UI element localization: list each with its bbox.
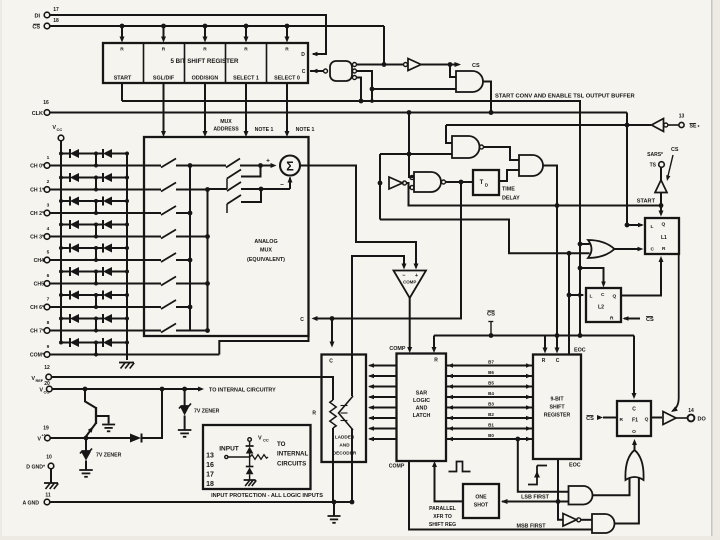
svg-text:4: 4 [47, 226, 50, 232]
wire start-cell to OR G8 [122, 101, 580, 336]
svg-text:LSB FIRST: LSB FIRST [521, 495, 550, 501]
svg-text:START CONV AND ENABLE TSL OUTP: START CONV AND ENABLE TSL OUTPUT BUFFER [495, 94, 635, 100]
svg-text:18: 18 [53, 18, 59, 24]
svg-text:NOTE 1: NOTE 1 [296, 127, 315, 133]
svg-text:9-BIT: 9-BIT [551, 397, 565, 403]
svg-text:17: 17 [53, 7, 59, 13]
svg-text:DELAY: DELAY [502, 196, 520, 202]
svg-text:SHIFT: SHIFT [550, 405, 566, 411]
buffer G2 internal CS [404, 63, 408, 67]
svg-text:DO: DO [698, 417, 707, 423]
svg-text:O: O [632, 429, 636, 435]
svg-text:R: R [434, 358, 438, 364]
wire CLK line [50, 112, 627, 114]
svg-text:20: 20 [44, 381, 50, 387]
and gate G3 start conv [456, 71, 483, 92]
svg-text:MUX: MUX [260, 248, 272, 254]
wire internal reset-clock line with CS node [434, 335, 634, 337]
svg-text:19: 19 [43, 426, 49, 432]
one shot U8 [463, 484, 499, 518]
svg-text:EOC: EOC [569, 463, 581, 469]
and gate G11 LSB first [569, 486, 593, 505]
svg-text:ODD/SIGN: ODD/SIGN [192, 76, 219, 82]
wire clk to latch L1 [626, 113, 628, 226]
svg-text:D GND*: D GND* [26, 465, 46, 471]
wires G1 inputs [357, 64, 385, 66]
wire START cell output [121, 83, 123, 101]
svg-text:COMP: COMP [389, 346, 406, 352]
svg-text:D: D [301, 52, 305, 58]
svg-text:9: 9 [47, 344, 50, 350]
pulse waveform symbol [449, 462, 471, 472]
svg-text:C: C [556, 358, 560, 364]
svg-text:L: L [590, 294, 593, 300]
svg-text:Σ: Σ [286, 160, 294, 174]
svg-text:SE: SE [690, 124, 697, 130]
buffer G9 DO output pin 14 [663, 412, 676, 425]
svg-text:13: 13 [679, 114, 685, 120]
nand gate G6 [414, 172, 441, 192]
svg-text:AND: AND [339, 443, 350, 448]
svg-text:SAR: SAR [416, 391, 427, 397]
svg-text:7: 7 [47, 297, 50, 303]
svg-text:R: R [620, 417, 624, 423]
svg-text:CS: CS [671, 147, 679, 153]
svg-text:R: R [244, 47, 248, 53]
nand gate G4 [452, 136, 480, 158]
5-bit shift register U1 [103, 43, 308, 83]
svg-text:ANALOG: ANALOG [254, 239, 277, 245]
svg-text:CLK: CLK [32, 111, 43, 117]
svg-text:INTERNAL: INTERNAL [277, 451, 308, 458]
svg-text:R: R [662, 246, 666, 252]
ground symbol rail [119, 362, 134, 364]
wire G6 output to mux C input [315, 182, 461, 319]
svg-text:TS: TS [650, 163, 657, 169]
svg-text:CC: CC [57, 127, 63, 132]
svg-text:DECODER: DECODER [333, 451, 357, 456]
rising edge symbol [528, 466, 537, 485]
bus B7-B0 between SAR and shift register [446, 365, 533, 367]
svg-text:F1: F1 [632, 418, 638, 424]
svg-text:A GND: A GND [22, 501, 39, 507]
svg-text:C: C [302, 69, 306, 75]
svg-text:REGISTER: REGISTER [544, 413, 571, 419]
wire parallel transfer to SAR [435, 464, 464, 502]
summing node sigma [280, 156, 300, 176]
svg-text:CH 0*: CH 0* [30, 164, 45, 170]
svg-text:5: 5 [47, 250, 50, 256]
svg-text:R: R [312, 411, 316, 417]
svg-text:C: C [632, 407, 636, 413]
svg-text:CH4: CH4 [34, 258, 44, 264]
svg-text:MUX: MUX [220, 119, 232, 125]
svg-text:+: + [266, 158, 270, 165]
svg-text:SELECT 0: SELECT 0 [274, 76, 300, 82]
wire mux C control [315, 318, 461, 320]
svg-text:B0: B0 [488, 433, 494, 438]
flip-flop F1 [617, 401, 651, 436]
wire L1 output to DO tri-state control [673, 254, 679, 411]
svg-text:R: R [542, 358, 546, 364]
comparator U4 [394, 271, 427, 299]
or gate G10 [625, 450, 643, 480]
svg-text:REF: REF [36, 379, 44, 383]
svg-text:COM*: COM* [30, 353, 45, 359]
svg-text:8: 8 [47, 320, 50, 326]
svg-text:LOGIC: LOGIC [413, 398, 430, 404]
svg-text:7V ZENER: 7V ZENER [96, 453, 122, 459]
svg-text:L2: L2 [598, 305, 604, 311]
svg-text:LATCH: LATCH [413, 413, 431, 419]
svg-text:B7: B7 [488, 360, 494, 365]
wire CS drop to gate G1 [383, 26, 385, 65]
svg-text:R: R [162, 47, 166, 53]
svg-text:Q: Q [613, 294, 617, 300]
input protection diode array CH0-COM [61, 153, 70, 155]
svg-text:SHOT: SHOT [474, 503, 489, 509]
svg-text:TIME: TIME [502, 187, 515, 193]
transistor Q1 [85, 389, 96, 408]
latch L2 [586, 288, 621, 322]
svg-text:L: L [651, 224, 654, 230]
and gate G5 [519, 155, 543, 176]
svg-text:V: V [258, 436, 262, 442]
svg-text:ADDRESS: ADDRESS [213, 127, 239, 133]
svg-text:C: C [651, 247, 655, 253]
svg-text:16: 16 [43, 100, 49, 106]
wire shift register serial out [558, 459, 563, 520]
svg-text:(EQUIVALENT): (EQUIVALENT) [247, 257, 285, 263]
wire G5 output start signal [543, 166, 557, 336]
svg-text:B6: B6 [488, 370, 494, 375]
zener Z1 7V with ground [85, 438, 87, 451]
svg-text:11: 11 [45, 493, 51, 499]
svg-text:B4: B4 [488, 391, 494, 396]
svg-text:B3: B3 [488, 402, 494, 407]
input protection detail box [203, 425, 311, 489]
wire G4 lower input [380, 153, 452, 155]
ladder and decoder U5 [322, 355, 367, 463]
svg-text:TO INTERNAL CIRCUITRY: TO INTERNAL CIRCUITRY [209, 388, 276, 394]
inverter G7 [389, 177, 403, 189]
SAR logic and latch U6 [397, 354, 447, 462]
svg-text:B5: B5 [488, 381, 494, 386]
svg-text:TO: TO [277, 441, 286, 448]
wire MSB first from SAR [409, 461, 592, 530]
wire sigma output to comparator plus [300, 166, 416, 268]
time delay U2 [473, 170, 499, 195]
wire G8 lower input [380, 220, 590, 254]
svg-text:18: 18 [206, 481, 214, 488]
svg-text:−: − [402, 273, 405, 279]
diode D19 on V+ line [130, 434, 141, 443]
svg-text:INPUT PROTECTION - ALL LOGIC: INPUT PROTECTION - ALL LOGIC INPUTS [211, 493, 323, 499]
svg-text:−: − [280, 182, 284, 189]
svg-text:CH 7*: CH 7* [30, 329, 45, 335]
ground Q1 base [102, 424, 115, 426]
wire ground rail [126, 154, 128, 361]
wire one-shot trigger [502, 501, 569, 503]
svg-text:COMP: COMP [389, 464, 405, 470]
svg-text:DI: DI [35, 14, 41, 20]
svg-text:START: START [637, 199, 656, 205]
svg-text:14: 14 [688, 408, 694, 414]
svg-text:SARS*: SARS* [647, 152, 663, 158]
svg-text:7V ZENER: 7V ZENER [194, 409, 220, 415]
svg-text:INPUT: INPUT [219, 446, 239, 453]
and gate G13 MSB first [592, 514, 615, 533]
svg-text:C: C [601, 292, 605, 298]
svg-text:12: 12 [44, 365, 50, 371]
svg-text:CH 6*: CH 6* [30, 305, 45, 311]
svg-text:CH 3*: CH 3* [30, 235, 45, 241]
svg-text:EOC: EOC [574, 348, 586, 354]
svg-text:START: START [114, 76, 132, 82]
svg-text:CH5: CH5 [34, 282, 44, 288]
svg-text:ONE: ONE [475, 495, 487, 501]
svg-text:CIRCUITS: CIRCUITS [277, 461, 306, 468]
svg-text:CS: CS [646, 317, 654, 323]
svg-text:Q: Q [662, 222, 666, 228]
svg-text:CS: CS [586, 416, 594, 422]
wire DI to shift register D input [50, 15, 326, 54]
tri-state buffer G15 SARS TS output [660, 193, 662, 206]
svg-text:CC: CC [263, 438, 269, 443]
svg-text:Q: Q [645, 417, 649, 423]
svg-text:1: 1 [47, 155, 50, 161]
svg-text:R: R [610, 316, 614, 322]
svg-text:6: 6 [47, 273, 50, 279]
svg-text:*: * [698, 125, 700, 131]
wire COM return [219, 336, 308, 355]
wire ladder output to comparator minus [352, 256, 404, 396]
svg-text:16: 16 [206, 462, 214, 469]
svg-text:CS: CS [472, 63, 480, 69]
svg-text:CH 2*: CH 2* [30, 211, 45, 217]
wire CS reset line with arrows into register cells [50, 25, 384, 27]
svg-text:R: R [120, 47, 124, 53]
svg-text:COMP: COMP [403, 280, 416, 285]
or gate G8 [588, 240, 615, 258]
wires mux address lines [163, 83, 165, 135]
nand gate G1 mirrored with input bubbles [330, 61, 352, 81]
svg-text:XFR TO: XFR TO [433, 514, 452, 520]
wire comparator output COMP to SAR [409, 298, 411, 351]
zener Z2 7V with ground [184, 389, 186, 406]
wire START line [409, 188, 662, 206]
svg-text:5 BIT SHIFT REGISTER: 5 BIT SHIFT REGISTER [170, 58, 239, 65]
svg-text:SELECT 1: SELECT 1 [233, 76, 259, 82]
svg-text:NOTE 1: NOTE 1 [255, 127, 274, 133]
svg-text:R: R [285, 47, 289, 53]
svg-text:SGL/DIF: SGL/DIF [153, 76, 175, 82]
svg-text:T: T [480, 180, 484, 186]
svg-text:C: C [300, 317, 304, 323]
svg-text:SHIFT REG: SHIFT REG [429, 522, 456, 528]
9-bit shift register U7 [533, 355, 581, 460]
svg-text:CS: CS [487, 312, 495, 318]
svg-text:+: + [415, 273, 418, 279]
svg-text:3: 3 [47, 203, 50, 209]
svg-text:2: 2 [47, 179, 50, 185]
svg-text:R: R [203, 47, 207, 53]
svg-text:B2: B2 [488, 412, 494, 417]
analog mux U3 [144, 137, 309, 336]
tri-state buffer G14 SE output pin 13 [652, 119, 664, 132]
svg-text:B1: B1 [488, 423, 494, 428]
wire enable line to SE buffer [446, 124, 651, 126]
svg-text:AND: AND [416, 406, 428, 412]
svg-text:13: 13 [206, 453, 214, 460]
svg-text:10: 10 [46, 455, 52, 461]
latch L1 [645, 218, 679, 254]
svg-text:C: C [329, 359, 333, 365]
wire B0 tap to G11 [518, 439, 569, 492]
svg-text:CS: CS [32, 25, 40, 31]
svg-text:17: 17 [206, 472, 214, 479]
svg-text:PARALLEL: PARALLEL [429, 506, 456, 512]
svg-text:L1: L1 [661, 235, 667, 241]
inverter G12 [563, 514, 577, 527]
wire EOC from shift register [568, 253, 570, 354]
svg-text:CH 1*: CH 1* [30, 188, 45, 194]
wires SAR outputs to decoder [370, 365, 397, 367]
